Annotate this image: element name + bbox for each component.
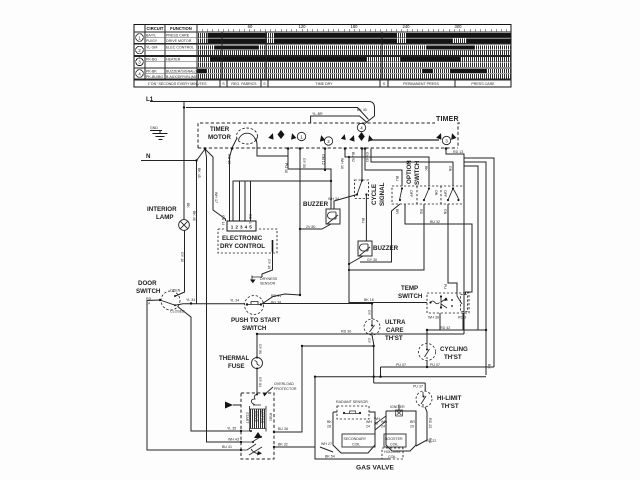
wire timer internal bus 4 to 3 bbox=[369, 139, 439, 141]
svg-text:PRESS CARE: PRESS CARE bbox=[471, 82, 495, 86]
svg-text:240: 240 bbox=[403, 24, 411, 29]
svg-text:2V 80: 2V 80 bbox=[306, 225, 315, 229]
wire WH 27 diag bbox=[320, 447, 333, 452]
svg-text:ULTRA: ULTRA bbox=[385, 319, 406, 326]
svg-text:B.AUX/DRY/BL(MAX): B.AUX/DRY/BL(MAX) bbox=[166, 75, 201, 79]
control connector box bbox=[227, 221, 256, 231]
svg-text:1"ON" SECONDS EVERY MINUTES: 1"ON" SECONDS EVERY MINUTES bbox=[148, 82, 208, 86]
wire hi-limit feed bbox=[424, 383, 426, 391]
svg-text:GY 16: GY 16 bbox=[267, 259, 271, 269]
wire push start RD91 out bbox=[261, 294, 300, 305]
wire temp out WH36 bbox=[439, 313, 441, 330]
cycle signal switch bbox=[361, 179, 363, 181]
chart sub-row separators bbox=[145, 38, 511, 74]
svg-text:YL-BR: YL-BR bbox=[312, 112, 323, 116]
svg-text:GN: GN bbox=[448, 166, 452, 172]
svg-text:BK 46: BK 46 bbox=[192, 211, 196, 221]
timer contact arrow left D bbox=[436, 132, 443, 140]
svg-text:DRYNESS: DRYNESS bbox=[260, 277, 278, 281]
chart timeline tick marks bbox=[197, 29, 506, 32]
timer contact arrow left C bbox=[349, 134, 356, 141]
svg-text:WH 17: WH 17 bbox=[214, 192, 218, 203]
timer contact diamond A bbox=[278, 130, 285, 139]
svg-text:28: 28 bbox=[327, 425, 331, 429]
timer cam circle 4 bbox=[357, 123, 365, 131]
svg-text:PU 07: PU 07 bbox=[430, 363, 440, 367]
svg-text:120: 120 bbox=[299, 24, 307, 29]
svg-text:PU 48: PU 48 bbox=[284, 163, 288, 173]
timer contact arrow right D bbox=[449, 132, 456, 140]
svg-text:BUZZER: BUZZER bbox=[373, 245, 399, 252]
svg-text:BK 54: BK 54 bbox=[325, 455, 335, 459]
chart bar row 1b bbox=[198, 38, 512, 42]
svg-text:PRESS CARE: PRESS CARE bbox=[166, 34, 190, 38]
svg-text:BUZZER: BUZZER bbox=[303, 201, 329, 208]
svg-text:PK-BG: PK-BG bbox=[146, 58, 157, 62]
svg-text:CARE: CARE bbox=[386, 327, 404, 334]
secondary coil box bbox=[342, 434, 375, 447]
circled row number 3 bbox=[136, 58, 144, 66]
svg-text:CYCLE: CYCLE bbox=[371, 184, 378, 205]
svg-text:RD 13: RD 13 bbox=[453, 150, 463, 154]
svg-text:RD 3: RD 3 bbox=[458, 316, 466, 320]
wire GY63 staircase to option switch left bbox=[365, 149, 402, 187]
chart bottom legend row bbox=[134, 80, 511, 88]
svg-text:TIMER: TIMER bbox=[210, 126, 230, 133]
wire buzzer1 top to cycle signal bbox=[334, 195, 357, 210]
svg-text:PK-BK: PK-BK bbox=[146, 69, 157, 73]
wire timer motor right lead bbox=[256, 138, 288, 156]
svg-text:OFF: OFF bbox=[443, 190, 447, 198]
svg-text:HI-LIMIT: HI-LIMIT bbox=[437, 395, 462, 402]
svg-text:WH 34: WH 34 bbox=[328, 197, 339, 201]
radiant sensor contacts bbox=[343, 412, 345, 414]
circled row number 4 bbox=[136, 70, 144, 78]
svg-text:CIRCUIT: CIRCUIT bbox=[147, 26, 164, 31]
wire thermostat bottom run y367 bbox=[381, 366, 495, 368]
wire option out 1 bbox=[360, 204, 400, 262]
chart bar row 3b bbox=[198, 62, 512, 66]
svg-text:PERMANENT PRESS: PERMANENT PRESS bbox=[403, 82, 439, 86]
buzzer2 symbol bbox=[358, 241, 372, 256]
svg-text:1: 1 bbox=[300, 135, 303, 140]
svg-text:GY 30: GY 30 bbox=[367, 258, 377, 262]
svg-text:BU: BU bbox=[395, 176, 399, 181]
chart bar row 2b bbox=[198, 51, 512, 55]
wire temp out RD3 bbox=[462, 313, 464, 330]
svg-text:RD 30: RD 30 bbox=[341, 330, 351, 334]
svg-text:GY 50: GY 50 bbox=[302, 158, 306, 168]
svg-text:BK: BK bbox=[327, 420, 332, 424]
svg-text:TH'ST: TH'ST bbox=[385, 335, 403, 342]
timer cam circle 3 bbox=[442, 136, 450, 144]
svg-text:YL-GM: YL-GM bbox=[146, 46, 157, 50]
svg-text:WH 43: WH 43 bbox=[228, 438, 239, 442]
svg-text:RD 91: RD 91 bbox=[271, 294, 281, 298]
wire GY50 to control feed bus bbox=[299, 149, 301, 296]
wire y375 run bbox=[315, 376, 486, 378]
chart bar row 4a bbox=[198, 69, 512, 73]
wire door switch to YL34 run bbox=[175, 304, 245, 305]
chart bar row 4b bbox=[198, 74, 512, 78]
svg-text:DOOR: DOOR bbox=[138, 280, 157, 287]
gas valve right body bbox=[386, 411, 416, 451]
wire cycle signal to buzzer2 bbox=[365, 195, 367, 242]
svg-text:SIGNAL: SIGNAL bbox=[379, 182, 386, 206]
timer cam circle 2 bbox=[324, 137, 332, 145]
svg-text:BU 36: BU 36 bbox=[278, 427, 288, 431]
svg-text:GY: GY bbox=[367, 310, 371, 316]
svg-text:3: 3 bbox=[138, 60, 141, 65]
wire control feed bus bbox=[233, 181, 331, 221]
svg-text:TH'ST: TH'ST bbox=[441, 403, 459, 410]
svg-text:MOTOR: MOTOR bbox=[208, 134, 231, 141]
svg-text:SECONDARY: SECONDARY bbox=[344, 437, 367, 441]
option switch contact 3 bbox=[452, 187, 454, 189]
wire motor BK32 out bbox=[274, 447, 390, 459]
wire lamp drop from L1 bbox=[183, 102, 185, 220]
wire option aux to temp right bbox=[405, 204, 472, 294]
wire BU92 to cycle signal bbox=[361, 149, 363, 181]
dryness sensor bbox=[252, 276, 262, 281]
svg-text:GY 84: GY 84 bbox=[258, 377, 262, 387]
temp switch dashed box bbox=[427, 293, 469, 313]
svg-text:COIL: COIL bbox=[388, 455, 396, 459]
svg-text:28: 28 bbox=[374, 422, 378, 426]
svg-text:OFF: OFF bbox=[409, 190, 413, 198]
svg-text:SWITCH: SWITCH bbox=[242, 325, 267, 332]
svg-text:BR: BR bbox=[410, 420, 415, 424]
svg-text:2: 2 bbox=[327, 139, 330, 144]
wire y367 to y377 connector bbox=[380, 367, 382, 377]
wire lamp to door switch bbox=[176, 230, 185, 296]
svg-text:GY 10: GY 10 bbox=[180, 252, 184, 262]
motor ground bbox=[233, 404, 241, 406]
booster coil box bbox=[384, 434, 406, 447]
wire heater run long bbox=[257, 334, 464, 358]
svg-text:GND: GND bbox=[150, 126, 158, 130]
svg-text:BU 41: BU 41 bbox=[222, 445, 232, 449]
wire RD15 to control connector bbox=[230, 149, 233, 222]
wire GM12 drop bbox=[324, 149, 326, 171]
wire door switch down run bbox=[147, 300, 241, 450]
interior lamp symbol bbox=[179, 220, 190, 231]
wire push start BG38 to ultra care bbox=[263, 304, 372, 320]
svg-text:COIL: COIL bbox=[352, 443, 360, 447]
wire control pin feeds from bus bbox=[240, 181, 251, 221]
svg-text:OPTION: OPTION bbox=[406, 160, 413, 184]
wire ultra care bottom run bbox=[372, 335, 374, 383]
svg-text:BU: BU bbox=[361, 218, 365, 223]
holding coil dashed box bbox=[382, 448, 403, 459]
svg-text:BK: BK bbox=[424, 166, 428, 171]
svg-text:ELEC CONTROL: ELEC CONTROL bbox=[166, 46, 194, 50]
svg-text:YL 35: YL 35 bbox=[227, 427, 236, 431]
wire staircase 4 down right bbox=[464, 166, 478, 330]
wire temp switch feed vertical bbox=[349, 157, 427, 303]
svg-text:60: 60 bbox=[248, 24, 253, 29]
svg-text:SWITCH: SWITCH bbox=[136, 288, 161, 295]
svg-text:BUZZER/SIGNAL(PC): BUZZER/SIGNAL(PC) bbox=[166, 69, 202, 73]
svg-text:1 2 3 4 5: 1 2 3 4 5 bbox=[231, 224, 253, 229]
wire igniter to secondary diag bbox=[375, 421, 386, 430]
timer contact arrow E bbox=[341, 133, 347, 140]
svg-text:START: START bbox=[245, 412, 249, 424]
chart bar row 2a bbox=[198, 45, 512, 49]
wire WH 17 to control bbox=[205, 149, 226, 221]
svg-text:180: 180 bbox=[351, 24, 359, 29]
wire hi-limit to booster bbox=[416, 407, 427, 446]
svg-text:24: 24 bbox=[381, 425, 385, 429]
svg-text:RD: RD bbox=[419, 209, 423, 215]
chart header row line bbox=[134, 31, 511, 33]
svg-text:LAMP: LAMP bbox=[156, 214, 174, 221]
svg-text:GN 14: GN 14 bbox=[221, 215, 225, 225]
svg-text:1: 1 bbox=[138, 35, 141, 40]
svg-text:REG. FABRICS: REG. FABRICS bbox=[231, 82, 257, 86]
cycling thermostat symbol bbox=[419, 344, 436, 361]
svg-text:RUN: RUN bbox=[269, 413, 273, 421]
chart outer border bbox=[134, 25, 511, 88]
svg-text:PROTECTOR: PROTECTOR bbox=[274, 387, 297, 391]
wire staircase 3 bbox=[464, 162, 486, 375]
svg-text:PU 37: PU 37 bbox=[413, 385, 423, 389]
wire cycling top bbox=[426, 330, 428, 344]
chart row separators bbox=[134, 44, 511, 80]
svg-text:PUSH TO START: PUSH TO START bbox=[231, 317, 280, 324]
svg-text:BK: BK bbox=[487, 364, 491, 369]
svg-text:RD 22: RD 22 bbox=[426, 439, 436, 443]
svg-text:WH: WH bbox=[374, 417, 380, 421]
svg-text:GM 12: GM 12 bbox=[321, 154, 325, 165]
hi-limit thermostat symbol bbox=[416, 391, 432, 407]
svg-text:GY 90: GY 90 bbox=[258, 344, 262, 354]
svg-text:RADIANT SENSOR: RADIANT SENSOR bbox=[336, 400, 368, 404]
svg-text:29: 29 bbox=[410, 425, 414, 429]
svg-text:WH 27: WH 27 bbox=[321, 442, 332, 446]
wire buzzer1 bottom bbox=[300, 224, 331, 229]
ultra care thermostat symbol bbox=[364, 319, 380, 335]
timer contact arrow right C bbox=[366, 134, 373, 141]
svg-text:2: 2 bbox=[138, 48, 141, 53]
wire RD42 run bbox=[427, 329, 486, 331]
svg-text:FUSE: FUSE bbox=[228, 363, 245, 370]
wire neutral drop to motor bbox=[205, 149, 241, 442]
svg-text:INTERIOR: INTERIOR bbox=[147, 206, 177, 213]
wire L1 horizontal bbox=[150, 102, 375, 124]
wire cycling bottom bbox=[426, 361, 428, 368]
chart vertical phase dividers bbox=[222, 32, 382, 80]
svg-text:S: S bbox=[222, 82, 225, 86]
electronic dry control dashed box U1 bbox=[218, 229, 277, 253]
svg-text:BK 32: BK 32 bbox=[278, 443, 288, 447]
door switch symbol bbox=[161, 291, 180, 310]
option switch contact 1 bbox=[401, 187, 403, 189]
wire staircase 2 bbox=[464, 158, 494, 367]
svg-text:BOOSTER: BOOSTER bbox=[385, 437, 403, 441]
circled row number 2 bbox=[136, 46, 144, 54]
svg-text:BA/YL: BA/YL bbox=[146, 34, 156, 38]
svg-text:TH'ST: TH'ST bbox=[444, 354, 462, 361]
control internal pin mark bbox=[272, 240, 274, 252]
svg-text:24: 24 bbox=[366, 425, 370, 429]
svg-text:ON: ON bbox=[434, 190, 438, 196]
chart bar row 3a bbox=[198, 57, 512, 61]
svg-text:GN: GN bbox=[443, 209, 447, 215]
timer terminal dots bbox=[204, 147, 448, 150]
igniter symbol bbox=[396, 410, 403, 416]
svg-text:THERMAL: THERMAL bbox=[219, 355, 249, 362]
svg-text:S: S bbox=[383, 82, 386, 86]
svg-text:RD 42: RD 42 bbox=[440, 326, 450, 330]
svg-text:IGNITER: IGNITER bbox=[390, 405, 405, 409]
svg-text:SWITCH: SWITCH bbox=[414, 160, 421, 185]
svg-text:BU 32: BU 32 bbox=[430, 220, 440, 224]
svg-text:DRY CONTROL: DRY CONTROL bbox=[220, 243, 265, 250]
cycle signal dashed box bbox=[355, 180, 369, 199]
wire thermal fuse to motor bbox=[256, 369, 258, 395]
radiant sensor dashed box bbox=[337, 406, 369, 419]
push to start switch symbol bbox=[245, 296, 264, 315]
timer dashed enclosure bbox=[198, 123, 460, 148]
motor internal contact bbox=[254, 432, 262, 438]
svg-text:FUNCTION: FUNCTION bbox=[170, 26, 192, 31]
svg-text:PU/GY: PU/GY bbox=[146, 39, 158, 43]
svg-text:TIMER: TIMER bbox=[436, 116, 459, 123]
wire hi-limit feed y383 bbox=[374, 382, 426, 384]
wire timer motor left lead bbox=[232, 138, 237, 148]
wire option out 2 bbox=[349, 204, 424, 270]
gas valve left body bbox=[333, 412, 375, 453]
motor centrifugal switch bbox=[249, 447, 262, 455]
svg-text:BR: BR bbox=[395, 209, 399, 214]
option switch dashed box bbox=[392, 186, 464, 204]
svg-text:DRIVE MOTOR: DRIVE MOTOR bbox=[166, 39, 192, 43]
svg-text:OPEN: OPEN bbox=[170, 289, 181, 293]
timer contact arrow right A bbox=[289, 132, 296, 139]
svg-text:RD 25: RD 25 bbox=[428, 418, 432, 428]
timer contact arrow B bbox=[318, 134, 325, 141]
timer contact diamond C bbox=[358, 132, 365, 141]
wire radiant drop bbox=[314, 377, 316, 447]
svg-text:N: N bbox=[146, 153, 151, 160]
wire dryness sensor lead bbox=[262, 252, 273, 277]
svg-text:4: 4 bbox=[138, 71, 141, 76]
svg-text:OVERLOAD: OVERLOAD bbox=[274, 382, 294, 386]
svg-text:4: 4 bbox=[360, 126, 363, 131]
temp switch contacts bbox=[429, 301, 431, 303]
svg-text:ELECTRONIC: ELECTRONIC bbox=[222, 235, 263, 242]
svg-text:TIME DRY: TIME DRY bbox=[315, 82, 333, 86]
wire YL34 drop to motor bbox=[178, 307, 242, 432]
svg-text:PU 07: PU 07 bbox=[396, 363, 406, 367]
svg-text:RD 11: RD 11 bbox=[248, 214, 252, 224]
svg-text:WH: WH bbox=[366, 420, 372, 424]
svg-text:SWITCH: SWITCH bbox=[398, 293, 423, 300]
wire PU48 to buzzer1 bbox=[288, 149, 331, 210]
wire RD13 staircase 1 heater run bbox=[446, 149, 464, 335]
svg-text:MOTOR: MOTOR bbox=[260, 410, 264, 424]
svg-text:BK 45: BK 45 bbox=[197, 168, 201, 178]
timer cam circle 1 bbox=[297, 132, 305, 140]
wire WH16 staircase to option switch mid bbox=[345, 149, 429, 187]
svg-text:S: S bbox=[263, 82, 266, 86]
wire buzzer2 bottom to temp switch bbox=[349, 256, 363, 264]
svg-text:BK: BK bbox=[186, 203, 190, 208]
chart column lines bbox=[145, 25, 197, 88]
wire option out 3 temp feed bbox=[448, 204, 457, 293]
buzzer1 symbol bbox=[326, 209, 340, 224]
svg-text:TEMP: TEMP bbox=[401, 285, 418, 292]
motor winding block bbox=[250, 409, 267, 429]
svg-text:SENSOR: SENSOR bbox=[260, 282, 276, 286]
wire motor BU36 to ultra care branch bbox=[274, 346, 374, 432]
circled row number 1 bbox=[136, 34, 144, 42]
timer motor symbol M1 bbox=[237, 128, 258, 144]
svg-text:3: 3 bbox=[445, 139, 448, 144]
svg-text:YL 34: YL 34 bbox=[230, 299, 239, 303]
wire N horizontal bbox=[141, 149, 205, 161]
svg-text:WH 16: WH 16 bbox=[340, 158, 344, 169]
chart bar row 1a bbox=[198, 33, 512, 37]
option switch contact 2 bbox=[428, 187, 430, 189]
svg-text:BK 16: BK 16 bbox=[364, 298, 374, 302]
svg-text:PU: PU bbox=[443, 284, 447, 289]
svg-text:HOLDING: HOLDING bbox=[384, 450, 401, 454]
motor dashed box bbox=[241, 393, 274, 459]
svg-text:300: 300 bbox=[455, 24, 463, 29]
svg-text:PK-BU/BG: PK-BU/BG bbox=[146, 75, 163, 79]
svg-text:COIL: COIL bbox=[390, 443, 398, 447]
svg-text:HEATER: HEATER bbox=[166, 58, 181, 62]
timer contact arrow left A bbox=[268, 132, 275, 139]
svg-text:CYCLING: CYCLING bbox=[440, 346, 468, 353]
svg-text:GAS VALVE: GAS VALVE bbox=[356, 465, 395, 472]
overload protector symbol bbox=[251, 394, 261, 405]
thermal fuse symbol bbox=[252, 358, 263, 369]
svg-text:DRIVE: DRIVE bbox=[254, 411, 258, 423]
svg-text:YL 34: YL 34 bbox=[186, 298, 195, 302]
svg-text:WH: WH bbox=[381, 420, 387, 424]
wire YL-BR run bbox=[311, 116, 367, 123]
wire GM12 staircase to option switch right bbox=[371, 149, 453, 187]
wire neutral branch to YL34 node bbox=[196, 161, 198, 304]
wire BK 40 run bbox=[186, 108, 369, 120]
motor terminal dots bbox=[240, 430, 275, 451]
svg-text:GY: GY bbox=[367, 338, 371, 344]
svg-text:WH 36: WH 36 bbox=[428, 316, 439, 320]
